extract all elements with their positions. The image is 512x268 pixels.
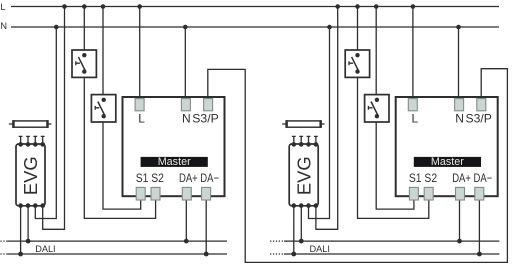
svg-text:EVG: EVG xyxy=(20,156,41,195)
svg-text:N: N xyxy=(182,111,191,125)
svg-text:S1 S2: S1 S2 xyxy=(136,171,164,185)
svg-text:L: L xyxy=(412,111,419,125)
svg-text:Master: Master xyxy=(431,156,464,168)
svg-text:DALI: DALI xyxy=(310,244,330,254)
svg-text:Master: Master xyxy=(158,156,191,168)
svg-text:DALI: DALI xyxy=(35,244,55,254)
svg-text:S1 S2: S1 S2 xyxy=(409,171,437,185)
svg-text:S3/P: S3/P xyxy=(192,111,218,125)
svg-text:L: L xyxy=(138,111,145,125)
svg-text:DA+ DA−: DA+ DA− xyxy=(179,171,219,185)
svg-text:L: L xyxy=(0,2,5,12)
svg-text:N: N xyxy=(0,21,7,31)
svg-text:DA+ DA−: DA+ DA− xyxy=(452,171,492,185)
svg-text:N: N xyxy=(455,111,464,125)
svg-text:EVG: EVG xyxy=(293,156,314,195)
svg-text:S3/P: S3/P xyxy=(466,111,492,125)
